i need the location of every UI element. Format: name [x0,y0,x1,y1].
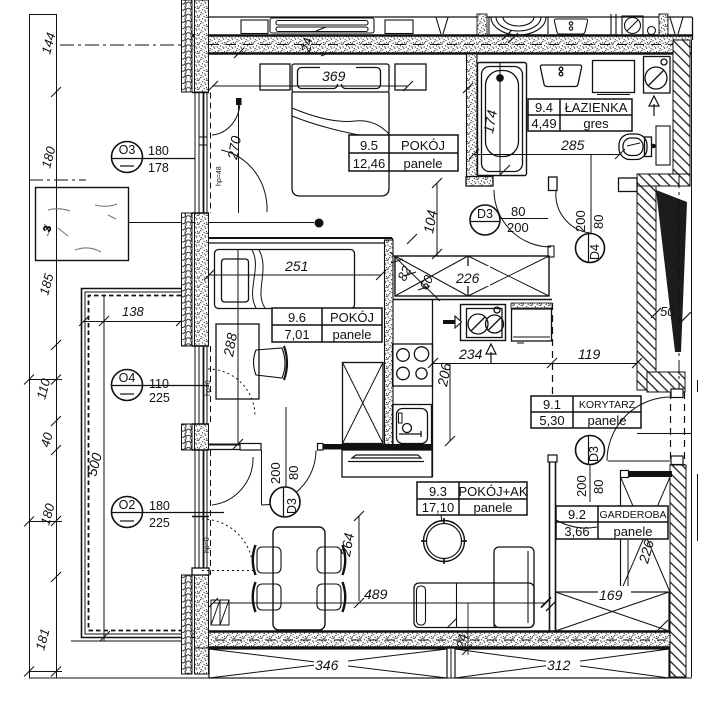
svg-text:180: 180 [148,144,169,158]
svg-text:50: 50 [660,304,675,319]
svg-text:panele: panele [403,156,442,171]
svg-text:369: 369 [322,68,346,84]
svg-text:POKÓJ: POKÓJ [330,310,374,325]
svg-text:138: 138 [122,304,144,319]
svg-text:346: 346 [315,657,339,673]
svg-text:9.4: 9.4 [535,100,553,115]
svg-text:hp=0: hp=0 [204,537,211,553]
svg-text:O3: O3 [119,143,136,157]
svg-text:80: 80 [511,204,525,219]
svg-text:panele: panele [332,327,371,342]
svg-text:9.3: 9.3 [429,484,447,499]
svg-text:7,01: 7,01 [284,327,309,342]
svg-text:D3: D3 [477,207,493,221]
svg-text:489: 489 [364,586,388,602]
svg-text:80: 80 [591,215,606,229]
svg-text:panele: panele [613,524,652,539]
svg-text:180: 180 [149,499,170,513]
svg-text:D3: D3 [285,498,299,514]
svg-text:4,49: 4,49 [531,116,556,131]
svg-text:234: 234 [458,346,483,362]
svg-text:80: 80 [591,480,606,494]
svg-text:5,30: 5,30 [539,413,564,428]
svg-text:251: 251 [284,258,308,274]
svg-text:9.5: 9.5 [360,138,378,153]
svg-text:panele: panele [587,413,626,428]
svg-text:KORYTARZ: KORYTARZ [579,399,636,411]
svg-text:panele: panele [473,500,512,515]
svg-text:178: 178 [148,161,169,175]
svg-text:POKÓJ+AK: POKÓJ+AK [459,484,528,499]
svg-text:200: 200 [507,220,529,235]
svg-text:GARDEROBA: GARDEROBA [599,509,666,521]
svg-text:D4: D4 [588,244,602,260]
svg-text:200: 200 [573,210,588,232]
svg-text:9.1: 9.1 [543,397,561,412]
svg-text:200: 200 [268,462,283,484]
svg-text:17,10: 17,10 [422,500,455,515]
svg-text:312: 312 [547,657,571,673]
svg-text:24: 24 [453,633,470,651]
svg-text:225: 225 [149,391,170,405]
svg-text:hp=48: hp=48 [216,166,223,186]
svg-text:110: 110 [149,377,169,391]
svg-text:POKÓJ: POKÓJ [401,138,445,153]
svg-text:119: 119 [578,346,601,362]
svg-text:226: 226 [455,270,480,286]
svg-text:225: 225 [149,516,170,530]
svg-text:12,46: 12,46 [353,156,386,171]
svg-text:hp=0: hp=0 [205,380,212,396]
svg-text:200: 200 [574,475,589,497]
svg-text:285: 285 [560,137,585,153]
svg-text:9.2: 9.2 [568,507,586,522]
svg-text:80: 80 [286,466,301,480]
svg-text:9.6: 9.6 [288,310,306,325]
svg-text:O2: O2 [119,498,136,512]
svg-text:gres: gres [583,116,609,131]
svg-text:O4: O4 [119,371,136,385]
svg-text:D3: D3 [587,446,601,462]
svg-text:ŁAZIENKA: ŁAZIENKA [565,100,628,115]
svg-text:24: 24 [298,37,315,55]
svg-text:3,66: 3,66 [564,524,589,539]
svg-text:169: 169 [599,587,623,603]
